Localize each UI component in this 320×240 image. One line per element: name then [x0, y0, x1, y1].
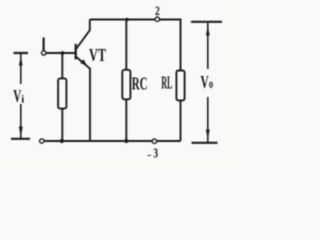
svg-text:RC: RC [132, 73, 148, 93]
svg-text:3: 3 [153, 145, 158, 160]
svg-text:V: V [201, 72, 209, 92]
svg-text:2: 2 [155, 3, 160, 18]
svg-text:V: V [13, 86, 21, 106]
svg-text:i: i [21, 95, 24, 106]
svg-text:0: 0 [209, 80, 214, 90]
svg-text:RL: RL [161, 72, 172, 92]
svg-text:VT: VT [89, 45, 106, 65]
